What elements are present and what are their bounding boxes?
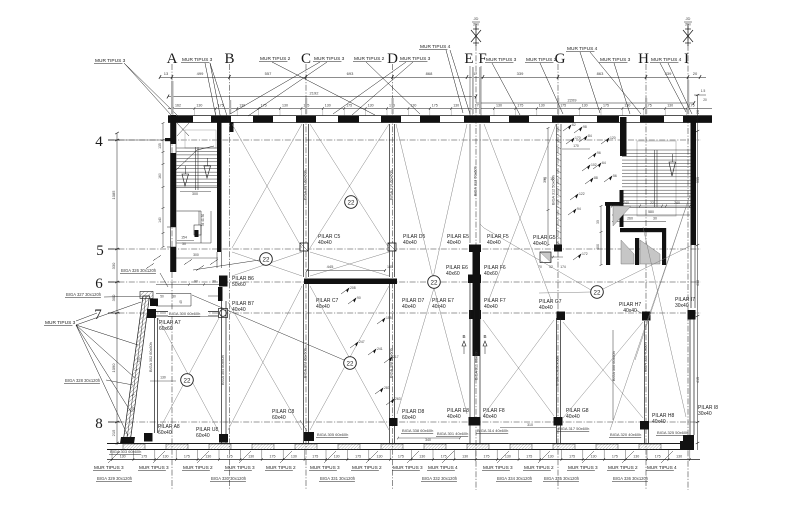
svg-text:BIGA 303 60x60h: BIGA 303 60x60h <box>110 449 141 454</box>
wall axis H lower <box>644 321 646 443</box>
svg-text:40x40: 40x40 <box>652 419 666 425</box>
hatched wall piece row7 <box>140 292 153 299</box>
wall axis D upper <box>389 124 391 277</box>
leader MUR TIPUS 2 BC <box>272 62 375 115</box>
gray wall stubs above wall <box>171 81 174 114</box>
top wall left corner <box>168 116 176 123</box>
top dimension line row 1 <box>160 77 706 79</box>
svg-text:20: 20 <box>693 71 698 76</box>
right stair gray box <box>637 141 676 216</box>
svg-text:120: 120 <box>610 136 616 140</box>
bay diagonals D-E upper <box>396 124 433 278</box>
pilar B7 <box>219 309 228 318</box>
svg-text:175: 175 <box>484 455 490 459</box>
svg-text:175: 175 <box>441 455 447 459</box>
svg-text:84: 84 <box>588 134 592 138</box>
shaft upper wall <box>620 190 624 227</box>
svg-text:175: 175 <box>655 455 661 459</box>
svg-text:175: 175 <box>184 455 190 459</box>
pilar C5 <box>300 243 308 251</box>
svg-text:150: 150 <box>131 407 136 413</box>
svg-text:175: 175 <box>137 357 142 363</box>
pilar G5 <box>554 245 562 252</box>
svg-text:BIGA 329 30x120h: BIGA 329 30x120h <box>97 476 133 481</box>
leader fan MUR TIPUS 3 west <box>76 302 141 325</box>
svg-text:130: 130 <box>582 104 588 108</box>
svg-text:215: 215 <box>111 429 116 436</box>
grid line 8 <box>108 421 700 423</box>
svg-text:445: 445 <box>327 264 334 269</box>
right dim corner <box>694 94 706 96</box>
svg-text:40x40: 40x40 <box>533 241 547 247</box>
svg-text:1085: 1085 <box>111 190 116 200</box>
svg-text:130: 130 <box>325 104 331 108</box>
pilar B6 <box>219 276 228 287</box>
svg-text:26: 26 <box>696 110 700 114</box>
svg-text:175: 175 <box>355 455 361 459</box>
svg-text:56: 56 <box>613 174 617 178</box>
bay diagonals G-H lower <box>563 322 643 418</box>
svg-text:34 41 30: 34 41 30 <box>201 214 205 227</box>
svg-text:40x40: 40x40 <box>483 414 497 420</box>
svg-text:300: 300 <box>192 192 198 196</box>
svg-text:135: 135 <box>158 143 162 149</box>
svg-text:30: 30 <box>182 242 186 246</box>
svg-text:BIGA 317 50x60h: BIGA 317 50x60h <box>558 426 589 431</box>
pilar G5 detail square <box>540 252 551 263</box>
svg-text:863: 863 <box>597 71 604 76</box>
label BIGA 300 on beam <box>168 310 208 316</box>
svg-text:130: 130 <box>377 455 383 459</box>
pilar U8 <box>219 434 228 443</box>
svg-text:175: 175 <box>560 104 566 108</box>
bay diagonals B-C upper <box>232 124 302 248</box>
svg-text:MUR TIPUS 3: MUR TIPUS 3 <box>45 320 76 326</box>
svg-text:130: 130 <box>591 455 597 459</box>
svg-text:MUR TIPUS 2: MUR TIPUS 2 <box>526 57 557 63</box>
svg-text:MUR TIPUS 3: MUR TIPUS 3 <box>182 57 213 63</box>
pilar H8 <box>640 421 649 430</box>
shaft left wall <box>606 202 610 265</box>
grid line C <box>305 64 307 490</box>
shaft right wall <box>662 228 666 265</box>
grid line G <box>557 64 559 490</box>
wall below A7 <box>154 318 156 433</box>
svg-text:130: 130 <box>462 455 468 459</box>
grid line 5 <box>108 248 701 250</box>
svg-text:MUR TIPUS 3: MUR TIPUS 3 <box>139 465 169 470</box>
svg-text:BIGA 311 60x60h: BIGA 311 60x60h <box>475 351 479 380</box>
svg-text:15: 15 <box>550 177 554 181</box>
left wall tie row4 <box>165 138 176 141</box>
svg-text:BIGA 304 60x60h: BIGA 304 60x60h <box>221 355 225 385</box>
svg-text:MUR TIPUS 4: MUR TIPUS 4 <box>651 57 682 63</box>
svg-text:22: 22 <box>431 279 438 286</box>
leader MUR TIPUS 3 D <box>333 62 406 114</box>
svg-text:174: 174 <box>560 265 566 269</box>
svg-text:MUR TIPUS 2: MUR TIPUS 2 <box>266 465 296 470</box>
svg-text:557: 557 <box>265 71 272 76</box>
svg-text:BIGA 302 60x60h: BIGA 302 60x60h <box>149 342 153 372</box>
svg-text:BIGA 310 60x60h: BIGA 310 60x60h <box>390 170 394 200</box>
grid line E/F axis <box>475 24 477 490</box>
slab mark 22 row6 DE <box>428 276 441 289</box>
svg-text:955: 955 <box>696 177 700 183</box>
svg-text:310: 310 <box>527 423 533 427</box>
svg-text:JD: JD <box>474 16 479 21</box>
dim flags cluster mid <box>341 288 349 294</box>
svg-text:B: B <box>483 334 486 339</box>
svg-text:BIGA 338 60x60h: BIGA 338 60x60h <box>402 428 433 433</box>
svg-text:130: 130 <box>334 455 340 459</box>
svg-text:BIGA 301 40x60h: BIGA 301 40x60h <box>437 431 468 436</box>
cluster wall black square <box>150 299 158 307</box>
svg-text:MUR TIPUS 3: MUR TIPUS 3 <box>393 465 423 470</box>
svg-text:247: 247 <box>359 340 365 344</box>
left dim column x163 <box>162 123 164 247</box>
svg-text:62: 62 <box>572 123 576 127</box>
top wall outline <box>168 115 712 117</box>
svg-text:88: 88 <box>594 176 598 180</box>
long diagonal right zone B <box>643 227 686 417</box>
svg-text:175: 175 <box>312 455 318 459</box>
grid line 4 <box>108 139 701 141</box>
left wall segment below row6 <box>171 247 176 272</box>
svg-text:90: 90 <box>194 280 198 284</box>
svg-text:I: I <box>684 51 689 67</box>
svg-text:208: 208 <box>350 286 356 290</box>
right stair treads <box>622 149 691 151</box>
svg-text:BIGA 308 60x60h: BIGA 308 60x60h <box>390 348 394 378</box>
svg-text:130: 130 <box>160 376 166 380</box>
svg-text:6: 6 <box>95 276 103 292</box>
svg-text:170: 170 <box>573 144 579 148</box>
svg-text:39m: 39m <box>473 23 480 27</box>
beam C-D row6 <box>304 279 397 285</box>
grid line D <box>392 64 394 490</box>
pilar C8 <box>304 432 314 441</box>
leader lines MUR TIPUS 3 far left <box>124 63 171 115</box>
svg-text:B: B <box>462 334 465 339</box>
grid line B <box>229 64 231 490</box>
shaft top stub <box>605 202 620 206</box>
slant wall foot <box>120 437 135 444</box>
cluster room outline <box>156 293 191 295</box>
shaft corner fill 2 <box>621 240 634 264</box>
svg-text:130: 130 <box>291 455 297 459</box>
svg-text:60x40: 60x40 <box>196 433 210 439</box>
wall axis EF upper <box>469 124 471 243</box>
slab mark 22 bay CD lower <box>344 357 357 370</box>
svg-text:241: 241 <box>377 347 383 351</box>
svg-text:140: 140 <box>158 217 162 223</box>
svg-text:MUR TIPUS 3: MUR TIPUS 3 <box>310 465 340 470</box>
svg-text:98: 98 <box>583 125 587 129</box>
svg-text:BIGA 300 60x60h: BIGA 300 60x60h <box>169 311 200 316</box>
svg-text:50x60: 50x60 <box>232 282 246 288</box>
svg-text:MUR TIPUS 3: MUR TIPUS 3 <box>95 58 126 64</box>
svg-text:130: 130 <box>539 104 545 108</box>
svg-text:40x40: 40x40 <box>318 240 332 246</box>
svg-text:130: 130 <box>248 455 254 459</box>
svg-text:MUR TIPUS 3: MUR TIPUS 3 <box>483 465 513 470</box>
leader MUR TIPUS 4 G <box>580 52 600 113</box>
svg-text:MUR TIPUS 2: MUR TIPUS 2 <box>524 465 554 470</box>
right stair rails <box>654 150 656 207</box>
svg-text:22: 22 <box>347 360 354 367</box>
svg-text:60x40: 60x40 <box>272 415 286 421</box>
svg-text:130: 130 <box>196 104 202 108</box>
pilar A8 <box>144 433 153 442</box>
svg-text:MUR TIPUS 2: MUR TIPUS 2 <box>260 56 291 62</box>
shaft corner fill 1 <box>613 206 631 226</box>
svg-text:BIGA 336 30x120h: BIGA 336 30x120h <box>613 476 649 481</box>
svg-text:MUR TIPUS 3: MUR TIPUS 3 <box>600 57 631 63</box>
svg-text:20: 20 <box>703 98 707 102</box>
svg-text:BIGA 327 30x120h: BIGA 327 30x120h <box>66 292 102 297</box>
wall axis EF lower <box>469 283 471 443</box>
svg-text:BIGA 307 60x60h: BIGA 307 60x60h <box>304 170 308 200</box>
pilar E7 F7 <box>469 310 481 319</box>
leader MUR TIPUS 4 HI <box>660 63 686 112</box>
svg-text:MUR TIPUS 4: MUR TIPUS 4 <box>567 46 598 52</box>
shaft diagonal leader <box>610 207 686 430</box>
stair top wall H <box>620 117 627 156</box>
slab mark 22 bay CD upper <box>345 196 358 209</box>
svg-text:130: 130 <box>163 455 169 459</box>
svg-text:BIGA 306 60x60h: BIGA 306 60x60h <box>612 351 616 381</box>
svg-text:BIGA 330 30x120h: BIGA 330 30x120h <box>211 476 247 481</box>
shaft corner fill 3 <box>640 240 660 264</box>
svg-text:175: 175 <box>141 455 147 459</box>
svg-text:130: 130 <box>548 455 554 459</box>
svg-text:13: 13 <box>164 71 169 76</box>
right dimension line <box>697 95 699 450</box>
svg-text:C: C <box>301 51 311 67</box>
svg-text:40x40: 40x40 <box>487 240 501 246</box>
left wall outline <box>170 116 172 272</box>
svg-text:BIGA 322 40x60h: BIGA 322 40x60h <box>644 342 648 372</box>
bottom wall hatched segments <box>123 444 145 450</box>
svg-text:H: H <box>638 51 649 67</box>
svg-text:175: 175 <box>526 455 532 459</box>
svg-text:40x40: 40x40 <box>403 240 417 246</box>
svg-text:175: 175 <box>398 455 404 459</box>
right wall lower line <box>690 245 692 308</box>
leader MUR TIPUS 2 CD <box>366 62 420 114</box>
pilar G8 <box>554 417 563 426</box>
svg-text:MUR TIPUS 2: MUR TIPUS 2 <box>354 56 385 62</box>
svg-text:4: 4 <box>95 134 103 150</box>
svg-text:155: 155 <box>386 316 392 320</box>
svg-text:175: 175 <box>227 455 233 459</box>
svg-text:45: 45 <box>179 300 183 304</box>
svg-text:17: 17 <box>543 177 547 181</box>
small dim marks cluster <box>154 256 160 260</box>
stair dim 300 <box>180 191 211 193</box>
svg-text:BIGA 318 50x60h: BIGA 318 50x60h <box>556 356 560 386</box>
svg-text:400: 400 <box>596 244 600 250</box>
svg-text:8: 8 <box>95 416 103 432</box>
svg-text:40x40: 40x40 <box>447 414 461 420</box>
svg-text:30: 30 <box>172 295 176 299</box>
leader MUR TIPUS 4 DE <box>446 50 463 113</box>
grid line 6 <box>108 281 701 283</box>
svg-text:MUR TIPUS 4: MUR TIPUS 4 <box>428 465 458 470</box>
svg-text:MUR TIPUS 3: MUR TIPUS 3 <box>486 57 517 63</box>
svg-text:A: A <box>167 51 178 67</box>
svg-text:160: 160 <box>158 173 162 179</box>
svg-text:MUR TIPUS 3: MUR TIPUS 3 <box>568 465 598 470</box>
leader MUR TIPUS 3 F <box>492 63 520 115</box>
svg-text:22: 22 <box>184 377 191 384</box>
top wall masonry segments <box>173 116 193 123</box>
svg-text:MUR TIPUS 4: MUR TIPUS 4 <box>647 465 677 470</box>
svg-text:94: 94 <box>577 207 581 211</box>
svg-text:22: 22 <box>650 201 654 205</box>
bay diagonals F-G upper <box>484 124 552 302</box>
svg-text:40x40: 40x40 <box>402 304 416 310</box>
svg-text:175: 175 <box>689 104 695 108</box>
bottom wall outline <box>107 443 694 445</box>
svg-text:868: 868 <box>426 71 433 76</box>
svg-text:330: 330 <box>111 262 116 269</box>
svg-text:175: 175 <box>432 104 438 108</box>
wall axis C upper <box>303 124 305 277</box>
room below stairs <box>177 210 202 212</box>
stair arrow 2 <box>204 166 211 178</box>
svg-text:1.5: 1.5 <box>701 89 706 93</box>
slab mark 22 bay AB lower <box>181 374 194 387</box>
top wall right corner <box>700 116 712 123</box>
svg-text:7: 7 <box>94 307 102 323</box>
svg-text:300: 300 <box>111 294 116 301</box>
svg-text:130: 130 <box>496 104 502 108</box>
top dimension line row 3 <box>168 108 712 110</box>
svg-text:64: 64 <box>602 161 606 165</box>
stair arrow 1 <box>182 174 189 186</box>
svg-text:175: 175 <box>270 455 276 459</box>
long leader to bottom <box>484 228 591 290</box>
cluster leader to 22 BC <box>193 260 260 270</box>
svg-text:263: 263 <box>395 397 401 401</box>
dim ticks slant <box>135 369 138 371</box>
pilar D5 <box>388 243 396 251</box>
pilar G7 <box>557 312 566 321</box>
left wall masonry segments <box>171 115 177 144</box>
wall axis C lower <box>303 284 305 443</box>
shaft dim vertical <box>600 206 602 265</box>
svg-text:30: 30 <box>596 220 600 224</box>
dim 130 west <box>150 380 176 382</box>
svg-text:170: 170 <box>575 136 581 140</box>
svg-text:E: E <box>464 51 473 67</box>
svg-text:130: 130 <box>633 455 639 459</box>
slanted wall hatched <box>123 296 150 443</box>
svg-text:240: 240 <box>623 201 629 205</box>
stair bottom landing <box>622 207 691 209</box>
svg-text:130: 130 <box>419 455 425 459</box>
svg-text:2192: 2192 <box>310 91 320 96</box>
dim line x613 <box>612 330 614 420</box>
wall axis G upper <box>556 124 558 248</box>
stair landing line <box>176 187 221 189</box>
grid line 7 <box>108 312 701 314</box>
svg-text:BIGA 335 30x120h: BIGA 335 30x120h <box>544 476 580 481</box>
svg-text:30: 30 <box>653 217 657 221</box>
svg-text:40x60: 40x60 <box>484 271 498 277</box>
svg-text:175: 175 <box>603 104 609 108</box>
leader lines MUR TIPUS 3 A <box>210 63 221 120</box>
left dimension line <box>116 133 118 445</box>
svg-text:96: 96 <box>597 151 601 155</box>
pilar H7 <box>642 312 651 321</box>
svg-text:MUR TIPUS 4: MUR TIPUS 4 <box>420 44 451 50</box>
svg-text:BIGA 331 30x120h: BIGA 331 30x120h <box>320 476 356 481</box>
door swing at stair top <box>177 123 189 136</box>
svg-text:40x40: 40x40 <box>484 304 498 310</box>
svg-text:283: 283 <box>384 386 390 390</box>
svg-text:430: 430 <box>696 280 700 286</box>
leader MUR TIPUS 3 C <box>230 62 320 114</box>
grid line H <box>645 64 647 490</box>
leader MUR TIPUS 2 FG <box>540 63 563 114</box>
bay diagonals F-G lower <box>483 320 554 416</box>
svg-text:BIGA 326 30x120h: BIGA 326 30x120h <box>121 268 157 273</box>
svg-text:JD: JD <box>686 16 691 21</box>
small wall piece below stairs <box>195 230 199 237</box>
svg-text:BIGA 328 30x120h: BIGA 328 30x120h <box>65 378 101 383</box>
dim 445 beam <box>307 270 385 272</box>
svg-text:130: 130 <box>205 455 211 459</box>
pilar I8 <box>683 435 694 449</box>
bay diagonals D-E lower <box>397 288 434 414</box>
svg-text:B: B <box>224 51 234 67</box>
svg-text:300: 300 <box>193 253 199 257</box>
shaft mid wall horizontal <box>620 228 666 232</box>
svg-text:40x40: 40x40 <box>447 240 461 246</box>
svg-text:2209: 2209 <box>568 98 578 103</box>
wall axis D lower <box>389 284 391 443</box>
bay diagonals C-D lower <box>310 286 389 430</box>
svg-text:1090: 1090 <box>111 363 116 373</box>
svg-text:175: 175 <box>612 455 618 459</box>
svg-text:693: 693 <box>347 71 354 76</box>
shaft mid wall vertical <box>635 238 639 265</box>
svg-text:MUR TIPUS 3: MUR TIPUS 3 <box>314 56 345 62</box>
bay diagonals B-C lower <box>228 302 302 430</box>
stair right wall <box>217 122 222 252</box>
slab mark 22 right <box>591 286 604 299</box>
svg-text:130: 130 <box>453 104 459 108</box>
left wall window ticks <box>167 226 176 228</box>
slab mark 22 bay BC <box>260 253 273 266</box>
svg-text:50: 50 <box>160 295 164 299</box>
svg-text:5: 5 <box>96 243 104 259</box>
svg-text:339: 339 <box>517 71 524 76</box>
pilar I7 <box>688 310 696 320</box>
svg-text:122: 122 <box>579 192 585 196</box>
svg-text:175: 175 <box>569 455 575 459</box>
long diagonal right zone A <box>635 195 690 360</box>
grid line A <box>171 64 173 490</box>
cluster leader to 22 CD <box>192 295 344 360</box>
svg-text:30x40: 30x40 <box>698 411 712 417</box>
svg-text:BIGA 313 60x60h: BIGA 313 60x60h <box>474 166 478 196</box>
wall axis B <box>221 301 223 443</box>
wall axis I lower <box>689 320 691 436</box>
svg-text:260: 260 <box>627 217 633 221</box>
